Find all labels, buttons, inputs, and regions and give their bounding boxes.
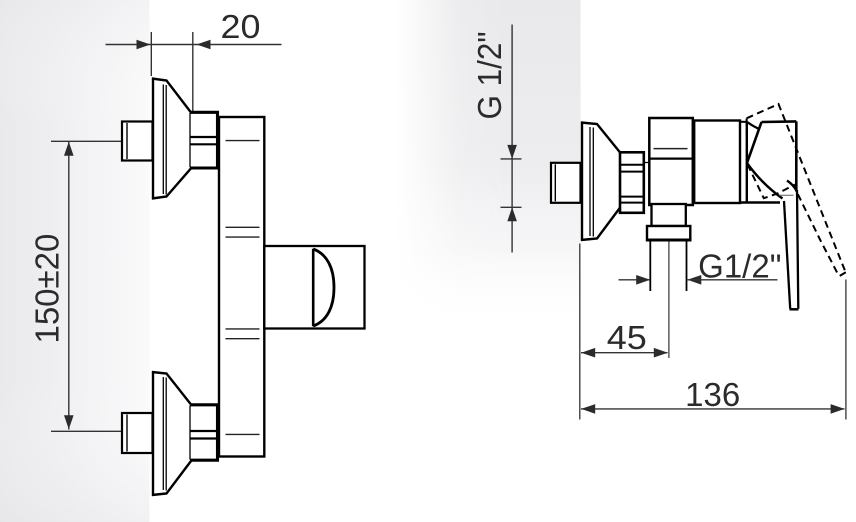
handle ring top edge — [739, 121, 748, 123]
handle hook detail — [787, 181, 797, 192]
connector line nut to body (right view) — [644, 162, 650, 164]
inlet pipe top (left view) — [122, 122, 153, 161]
handle lever end chord — [312, 249, 315, 327]
escutcheon bottom (left view) — [152, 371, 191, 496]
svg-text:136: 136 — [685, 376, 740, 413]
dimension G 1/2 arrow up — [507, 207, 517, 221]
union nut top (left view) — [190, 112, 218, 168]
outlet neck (right view) — [652, 204, 686, 226]
inlet pipe bottom end line — [126, 415, 128, 452]
dimension 150±20 line — [68, 142, 70, 430]
dimension G 1/2 bottom leader — [501, 206, 522, 208]
dimension G1/2 arrow left-pointing — [687, 275, 701, 285]
escutcheon (right view) — [581, 122, 621, 242]
dimension 20 line — [106, 44, 282, 46]
body groove line 5 — [226, 338, 260, 340]
outlet thread line right — [686, 242, 688, 292]
svg-text:45: 45 — [607, 319, 647, 356]
escutcheon top (left view) — [152, 78, 191, 200]
dimension 20 extension line B — [192, 32, 194, 111]
dimension 45 line — [581, 352, 668, 354]
dimension G 1/2 vertical line — [511, 25, 513, 253]
dimension 20 extension line A — [150, 32, 152, 76]
mixer body section 2 (right view) — [694, 121, 740, 204]
body groove line 4 — [226, 328, 260, 330]
union nut bottom (left view) — [190, 405, 218, 461]
dimension 136 arrow left — [581, 404, 595, 414]
outlet collar bottom thick edge — [646, 239, 691, 242]
dimension 150±20 top leader — [51, 140, 122, 142]
handle alternate position (dashed) tip cap — [839, 272, 846, 276]
handle alternate position (dashed) upper outline — [747, 104, 846, 272]
dimension G1/2 arrow right-pointing — [636, 275, 650, 285]
dimension 45/136 shared extension line — [579, 244, 581, 420]
dimension 150±20 arrow up — [64, 142, 74, 156]
dimension 20 arrow left-pointing — [197, 40, 211, 50]
handle ring — [746, 121, 748, 202]
dimension 150±20 bottom leader — [51, 430, 122, 432]
outlet collar (right view) — [647, 226, 690, 240]
mixer body section 1 (right view) — [649, 118, 693, 205]
handle grip (solid, right view) — [747, 121, 796, 199]
svg-text:150±20: 150±20 — [29, 234, 66, 344]
handle lever end arc — [313, 249, 334, 326]
inlet pipe end line (right view) — [554, 164, 556, 201]
handle lever arm (solid) — [784, 190, 799, 309]
dimension G1/2 line right segment — [687, 279, 777, 281]
svg-text:20: 20 — [221, 8, 261, 45]
body groove line 2 — [226, 226, 260, 228]
svg-text:G 1/2": G 1/2" — [471, 32, 508, 120]
dome top curve — [748, 122, 763, 130]
dimension G 1/2 arrow down — [507, 145, 517, 159]
dimension 45 arrow right — [654, 348, 668, 358]
outlet centerline — [668, 242, 670, 359]
mixer body (left view) — [219, 117, 264, 457]
svg-text:G1/2": G1/2" — [698, 248, 781, 285]
body groove line 1 — [226, 140, 260, 142]
inlet pipe top end line — [126, 123, 128, 159]
wall shading left view — [0, 0, 150, 522]
handle faint lower edge — [780, 194, 794, 196]
body section 1 groove — [654, 148, 688, 150]
outlet thread line left — [649, 242, 651, 292]
dimension G 1/2 top leader — [501, 158, 522, 160]
dome bottom edge — [740, 201, 780, 203]
handle alternate position (dashed) lower outline — [747, 119, 839, 276]
dimension 136 line — [581, 408, 845, 410]
dimension 20 arrow right-pointing — [137, 40, 151, 50]
body groove line 6 — [226, 433, 260, 435]
wall shading left view corner tone — [0, 0, 150, 522]
wall shading right view — [395, 0, 581, 330]
dimension 136 arrow right — [831, 404, 845, 414]
dimension 45 arrow left — [581, 348, 595, 358]
inlet pipe bottom (left view) — [122, 413, 153, 453]
union nut (right view) — [620, 152, 644, 213]
body section 1 divider — [650, 157, 692, 159]
dimension 150±20 arrow down — [64, 415, 74, 429]
body groove line 3 — [226, 236, 260, 238]
handle block (left view) — [264, 246, 364, 329]
dimension G1/2 line left segment — [619, 279, 650, 281]
dimension 136 extension line right — [845, 280, 847, 420]
inlet pipe (right view) — [551, 163, 581, 203]
